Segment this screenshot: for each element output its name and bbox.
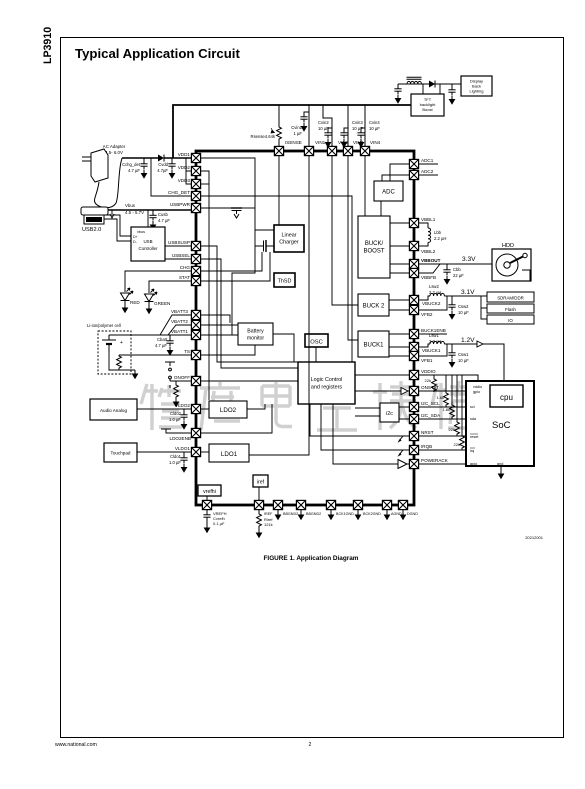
svg-text:1 µF: 1 µF bbox=[294, 131, 303, 136]
svg-text:Audio Analog: Audio Analog bbox=[100, 408, 128, 413]
pin USBPWR bbox=[191, 203, 200, 212]
capacitor Cvdd bbox=[157, 158, 175, 179]
wire VDD1 internal down bbox=[201, 158, 274, 230]
wire charge path down bbox=[201, 230, 255, 335]
svg-text:Cldo2: Cldo2 bbox=[170, 411, 182, 416]
svg-text:4.7 µF: 4.7 µF bbox=[158, 218, 170, 223]
svg-text:ADC: ADC bbox=[382, 190, 395, 196]
wire VDDIO bbox=[419, 375, 478, 381]
pin VDD3 bbox=[191, 179, 200, 188]
svg-text:reset: reset bbox=[470, 435, 479, 439]
wire vrefhi stub bbox=[206, 496, 208, 500]
pin VFB2 bbox=[409, 305, 418, 314]
svg-text:HDD: HDD bbox=[502, 243, 514, 249]
wire ADC to buck/boost bbox=[380, 201, 382, 216]
svg-text:4.7 µF: 4.7 µF bbox=[128, 168, 140, 173]
block cpu bbox=[490, 385, 523, 407]
resistor pullup SCL 1.6k bbox=[436, 375, 448, 407]
resistor pullup SDA 1.8k bbox=[442, 375, 454, 419]
wire battery monitor to logic bbox=[273, 334, 294, 362]
svg-text:22k: 22k bbox=[449, 427, 455, 432]
wire STAT internal bbox=[201, 252, 270, 281]
svg-text:VLDO1: VLDO1 bbox=[175, 446, 191, 451]
svg-text:vddio: vddio bbox=[473, 385, 482, 389]
svg-text:Rsense4.64k: Rsense4.64k bbox=[251, 134, 276, 139]
ground BCK1GND bbox=[328, 510, 335, 521]
svg-text:Lsw2: Lsw2 bbox=[429, 284, 439, 289]
pin VDD2 bbox=[191, 166, 200, 175]
wire VBBOUT internal bbox=[390, 263, 409, 265]
wire VBATT2 internal bbox=[201, 324, 238, 326]
svg-text:monitor: monitor bbox=[247, 336, 265, 342]
wire I2C_SDA bbox=[419, 418, 466, 420]
transistor Q1 power switch bbox=[231, 208, 242, 218]
capacitor Csw2 bbox=[448, 296, 469, 320]
svg-text:Cbb: Cbb bbox=[453, 267, 461, 272]
wire USBSUSP bbox=[165, 245, 191, 247]
wire ADC2 stub bbox=[419, 174, 438, 176]
wire VBBL2 internal bbox=[390, 245, 409, 247]
pin VBATT1 bbox=[191, 330, 200, 339]
svg-text:ISENSE: ISENSE bbox=[285, 140, 302, 145]
capacitor Cbatt bbox=[155, 335, 174, 356]
svg-text:BBGND2: BBGND2 bbox=[283, 512, 298, 516]
svg-text:3.3V: 3.3V bbox=[462, 256, 476, 263]
svg-text:BCK2GND: BCK2GND bbox=[363, 512, 381, 516]
svg-text:VBBFB: VBBFB bbox=[421, 275, 436, 280]
svg-text:Charger: Charger bbox=[279, 240, 299, 246]
pin VBBL2 bbox=[409, 241, 418, 250]
svg-text:IO: IO bbox=[508, 318, 513, 323]
wire CHG to RED led bbox=[125, 271, 191, 292]
svg-text:2.2 µH: 2.2 µH bbox=[434, 236, 446, 241]
svg-text:10 µF: 10 µF bbox=[352, 126, 363, 131]
svg-text:ADC2: ADC2 bbox=[421, 169, 434, 174]
capacitor Cldo2 bbox=[169, 409, 188, 430]
svg-text:VBBOUT: VBBOUT bbox=[421, 258, 441, 263]
svg-text:121k: 121k bbox=[264, 522, 273, 527]
capacitor Cusb bbox=[149, 210, 170, 230]
block Flash bbox=[487, 304, 534, 313]
wires boost switch node bbox=[423, 84, 440, 94]
diode D1 bbox=[158, 155, 164, 162]
pin VIN1 bbox=[304, 146, 313, 155]
wire VDD2 VDD3 tie bbox=[186, 158, 191, 184]
wire to memory boxes bbox=[481, 296, 487, 319]
wire LDO2ENB internal bbox=[201, 404, 272, 433]
svg-text:4.7µF: 4.7µF bbox=[157, 168, 168, 173]
pin VDD1 bbox=[191, 153, 200, 162]
wire IRQB internal bbox=[321, 404, 409, 450]
svg-text:1.2V: 1.2V bbox=[461, 337, 475, 344]
svg-text:gnd: gnd bbox=[497, 462, 503, 466]
svg-text:Cvdd: Cvdd bbox=[158, 162, 168, 167]
wire VLDO1 bbox=[137, 451, 191, 453]
block Display Back Lighting bbox=[461, 76, 492, 96]
svg-text:3.1V: 3.1V bbox=[461, 289, 475, 296]
pin AGND bbox=[382, 500, 391, 509]
svg-text:LDO1: LDO1 bbox=[221, 451, 238, 458]
svg-text:AC Adapter: AC Adapter bbox=[103, 144, 126, 149]
wire diode to VDD1 bbox=[164, 157, 191, 159]
wire POWERACK internal bbox=[333, 404, 409, 464]
driver arrow NRST bbox=[398, 436, 410, 443]
block BUCK1 bbox=[358, 331, 389, 357]
capacitor Cvrefh bbox=[203, 510, 226, 534]
pin BCK1GND bbox=[326, 500, 335, 509]
svg-text:Cvin4: Cvin4 bbox=[369, 120, 380, 125]
block SDRAM/DDR bbox=[487, 292, 534, 302]
svg-text:VBBL1: VBBL1 bbox=[421, 217, 436, 222]
svg-text:LP3910: LP3910 bbox=[42, 27, 54, 64]
pin CHG bbox=[191, 266, 200, 275]
capacitor Cchg_det bbox=[122, 158, 148, 179]
inductor Lsw2 bbox=[419, 284, 487, 300]
wire VDD2 VDD3 internal join bbox=[201, 171, 209, 400]
pin VLDO1 bbox=[191, 447, 200, 456]
wire VBUCK2 internal bbox=[389, 299, 409, 301]
wire VFB2 bbox=[419, 296, 447, 310]
vbus arrow bbox=[110, 210, 114, 218]
svg-text:Cvin3: Cvin3 bbox=[352, 120, 363, 125]
svg-text:ONSTAT: ONSTAT bbox=[421, 385, 439, 390]
wire LDO2 to logic bbox=[247, 404, 265, 409]
wire CHG_DET branch bbox=[151, 158, 191, 196]
svg-text:gpio: gpio bbox=[470, 462, 477, 466]
capacitor Cbb bbox=[443, 264, 464, 285]
resistor pullup IRQB 22k bbox=[454, 375, 465, 450]
svg-text:USB2.0: USB2.0 bbox=[82, 227, 101, 233]
svg-text:gpio: gpio bbox=[473, 390, 480, 394]
svg-text:Lsw1: Lsw1 bbox=[429, 333, 439, 338]
wire VIN1 riser bbox=[308, 105, 310, 146]
block BUCK/BOOST bbox=[358, 216, 390, 278]
arrow 1.2V bbox=[477, 341, 483, 347]
pin VFB1 bbox=[409, 351, 418, 360]
wire NRST bbox=[419, 435, 466, 437]
svg-text:BOOST: BOOST bbox=[363, 249, 384, 255]
svg-text:Cvin1: Cvin1 bbox=[291, 125, 302, 130]
wire VFB2 internal bbox=[389, 309, 409, 311]
pin VBUCK1 bbox=[409, 342, 418, 351]
wire VIN2 riser bbox=[323, 105, 332, 146]
svg-text:BUCK1: BUCK1 bbox=[363, 343, 384, 349]
svg-text:D+: D+ bbox=[133, 235, 138, 239]
svg-text:Battery: Battery bbox=[247, 329, 264, 335]
pin ADC2 bbox=[409, 170, 418, 179]
wire CHG_DET internal bbox=[201, 196, 352, 362]
wire VIN3 riser bbox=[347, 105, 349, 146]
svg-text:VDDIO: VDDIO bbox=[421, 369, 436, 374]
block IO bbox=[487, 315, 534, 324]
wire OSC to logic bbox=[315, 347, 317, 362]
svg-text:1.0 µF: 1.0 µF bbox=[169, 460, 181, 465]
svg-text:USBSEL: USBSEL bbox=[172, 253, 191, 258]
pin ONOFF bbox=[191, 376, 200, 385]
block vrefhi bbox=[198, 485, 221, 496]
svg-text:USBPWR: USBPWR bbox=[170, 202, 191, 207]
svg-text:Boost: Boost bbox=[422, 107, 433, 112]
wire VBATT bus diagonals bbox=[109, 315, 191, 335]
wire VLDO2 internal bbox=[201, 408, 209, 410]
pin DGND bbox=[398, 500, 407, 509]
wire STAT to GREEN led bbox=[149, 281, 191, 293]
svg-text:VIN4: VIN4 bbox=[370, 140, 381, 145]
svg-text:20212001: 20212001 bbox=[525, 535, 544, 540]
ground BBGND1 bbox=[275, 510, 282, 521]
pin BCK2GND bbox=[353, 500, 362, 509]
wire top rail to TFT boost bbox=[173, 105, 411, 158]
svg-text:VDD1: VDD1 bbox=[178, 152, 191, 157]
pin VIN2 bbox=[327, 146, 336, 155]
svg-text:2.2 µH: 2.2 µH bbox=[429, 339, 441, 344]
block ADC bbox=[374, 181, 403, 201]
IC LP3910 outline bbox=[196, 151, 414, 505]
svg-text:1.8k: 1.8k bbox=[442, 407, 450, 412]
pin ISENSE bbox=[274, 146, 283, 155]
capacitor Cvin2 bbox=[318, 120, 332, 148]
USB controller box bbox=[131, 227, 165, 261]
wire battery minus to gnd bbox=[109, 352, 135, 370]
svg-text:Cchg_det: Cchg_det bbox=[122, 162, 141, 167]
ground BBGND2 bbox=[298, 510, 305, 521]
svg-text:10 µF: 10 µF bbox=[458, 358, 469, 363]
svg-text:POWERACK: POWERACK bbox=[421, 458, 449, 463]
pin BBGND1 bbox=[273, 500, 282, 509]
svg-text:scl: scl bbox=[470, 405, 475, 409]
svg-text:VBUCK1: VBUCK1 bbox=[422, 348, 441, 353]
inductor Lsw1 bbox=[419, 333, 504, 385]
svg-text:ONOFF: ONOFF bbox=[174, 375, 190, 380]
page border frame bbox=[61, 38, 564, 738]
svg-text:Typical Application Circuit: Typical Application Circuit bbox=[75, 46, 240, 61]
wire ONOFF internal bbox=[201, 380, 298, 382]
resistor Riref bbox=[256, 510, 274, 539]
wire BUCK1ENB internal bbox=[389, 333, 409, 335]
wire VBATT1 internal bbox=[201, 334, 238, 336]
svg-text:CHG_DET: CHG_DET bbox=[168, 190, 190, 195]
ground BCK2GND bbox=[355, 510, 362, 521]
wire IRQB bbox=[419, 449, 466, 451]
svg-text:+: + bbox=[120, 340, 123, 346]
svg-text:VFB1: VFB1 bbox=[421, 358, 433, 363]
pin CHG_DET bbox=[191, 191, 200, 200]
inductor Lbb bbox=[419, 223, 447, 246]
svg-text:IREF: IREF bbox=[264, 512, 273, 516]
capacitor boost output bbox=[448, 84, 455, 105]
svg-text:Linear: Linear bbox=[282, 233, 297, 239]
LED RED bbox=[121, 288, 134, 304]
battery cell symbol bbox=[102, 335, 116, 352]
TFT boost circuit wire bbox=[398, 84, 461, 87]
wire VFB1 internal bbox=[389, 355, 409, 357]
wire switch to node bbox=[242, 207, 255, 209]
block Battery monitor bbox=[238, 323, 273, 345]
wire VIN4 internal to BUCK/BOOST bbox=[364, 156, 366, 216]
svg-text:Lighting: Lighting bbox=[469, 89, 483, 94]
capacitor Csw1 bbox=[448, 344, 469, 368]
svg-text:22k: 22k bbox=[454, 442, 460, 447]
SoC ground bbox=[498, 466, 505, 479]
wire VLDO2 bbox=[137, 408, 191, 410]
block BUCK 2 bbox=[358, 294, 389, 316]
block LDO1 bbox=[209, 444, 249, 462]
pin ADC1 bbox=[409, 159, 418, 168]
wire logic to i2c bbox=[355, 408, 380, 416]
wire i2c to pins bbox=[399, 407, 409, 419]
pin POWERACK bbox=[409, 459, 418, 468]
block TFT backlight Boost bbox=[411, 94, 444, 116]
wire ONOFF bbox=[170, 380, 191, 382]
pin I2C_SCL bbox=[409, 402, 418, 411]
svg-text:2.2 µH: 2.2 µH bbox=[429, 290, 441, 295]
inductor boost bbox=[407, 81, 421, 84]
block iref bbox=[253, 475, 268, 487]
svg-text:RED: RED bbox=[130, 300, 140, 305]
pin VLDO2 bbox=[191, 404, 200, 413]
svg-text:Cvin2: Cvin2 bbox=[318, 120, 329, 125]
svg-text:VDD3: VDD3 bbox=[178, 178, 191, 183]
pin ONSTAT bbox=[409, 386, 418, 395]
svg-text:BUCK/: BUCK/ bbox=[365, 241, 384, 247]
resistor pullup NRST 22k bbox=[449, 375, 460, 436]
pin IREF bbox=[254, 500, 263, 509]
svg-text:VBBL2: VBBL2 bbox=[421, 249, 436, 254]
driver triangle ONSTAT bbox=[401, 388, 408, 395]
svg-text:sda: sda bbox=[470, 417, 477, 421]
wire ADC2 internal bbox=[382, 175, 409, 181]
block SoC bbox=[466, 381, 534, 466]
svg-text:DGND: DGND bbox=[407, 512, 418, 516]
pin STAT bbox=[191, 276, 200, 285]
wire USBPWR internal to switch bbox=[201, 207, 231, 209]
svg-text:cpu: cpu bbox=[500, 393, 513, 402]
svg-text:BCK1GND: BCK1GND bbox=[336, 512, 354, 516]
capacitor Cldo1 bbox=[169, 452, 188, 473]
svg-text:10 µF: 10 µF bbox=[369, 126, 380, 131]
wire TS to thermistor bbox=[119, 354, 191, 356]
svg-text:IRQB: IRQB bbox=[421, 444, 432, 449]
svg-text:Flash: Flash bbox=[505, 307, 516, 312]
resistor Rsense bbox=[251, 105, 282, 146]
svg-text:SDRAM/DDR: SDRAM/DDR bbox=[497, 296, 524, 301]
wire VIN3 internal to BUCK1 bbox=[348, 156, 358, 340]
block Linear Charger bbox=[274, 225, 304, 252]
svg-text:Li-ion/polymer cell: Li-ion/polymer cell bbox=[87, 323, 121, 328]
resistor pullup ONSTAT 22k bbox=[425, 375, 437, 392]
wire VBBFB internal bbox=[390, 272, 409, 274]
block LDO2 bbox=[209, 401, 247, 418]
wire VBUCK1 internal bbox=[389, 346, 409, 348]
svg-text:irq: irq bbox=[470, 449, 474, 453]
wire USBSUSP internal bbox=[201, 246, 298, 362]
svg-text:10 µF: 10 µF bbox=[458, 310, 469, 315]
wire USBSEL internal bbox=[201, 259, 298, 368]
svg-text:iref: iref bbox=[257, 480, 265, 486]
svg-text:22 µF: 22 µF bbox=[453, 273, 464, 278]
ground AGND bbox=[384, 510, 391, 521]
block ThSD bbox=[274, 273, 295, 287]
driver arrow IRQB bbox=[398, 450, 410, 457]
pin IRQB bbox=[409, 445, 418, 454]
pin LDO2ENB bbox=[191, 428, 200, 437]
svg-text:LDO2ENB: LDO2ENB bbox=[170, 436, 191, 441]
svg-text:OSC: OSC bbox=[310, 340, 323, 346]
svg-text:2: 2 bbox=[309, 742, 312, 748]
pin BBGND2 bbox=[296, 500, 305, 509]
wire VBATT3 internal bbox=[201, 315, 230, 323]
wire VBBL1 internal bbox=[390, 222, 409, 224]
svg-text:TS: TS bbox=[184, 349, 190, 354]
svg-text:Logic Control: Logic Control bbox=[311, 377, 343, 383]
pin VBATT3 bbox=[191, 310, 200, 319]
svg-text:VDD2: VDD2 bbox=[178, 165, 191, 170]
svg-text:VBATT3: VBATT3 bbox=[171, 309, 188, 314]
svg-text:vrefhi: vrefhi bbox=[203, 489, 216, 495]
diode boost bbox=[429, 81, 435, 88]
driver triangle POWERACK bbox=[398, 460, 407, 469]
svg-text:www.national.com: www.national.com bbox=[55, 742, 97, 748]
svg-text:Cbatt: Cbatt bbox=[157, 337, 168, 342]
wire ISENSE internal bbox=[278, 156, 280, 225]
wire POWERACK bbox=[419, 463, 466, 465]
block Logic Control and registers bbox=[298, 362, 355, 404]
wire VFB1 bbox=[419, 344, 447, 356]
wire LDO2ENB stub bbox=[161, 429, 191, 433]
svg-text:4.7 µF: 4.7 µF bbox=[155, 343, 167, 348]
pin VBBOUT bbox=[409, 259, 418, 268]
svg-text:VFB2: VFB2 bbox=[421, 312, 433, 317]
svg-text:Csw2: Csw2 bbox=[458, 304, 469, 309]
wire vbus to controller bbox=[147, 210, 149, 227]
svg-text:i2c: i2c bbox=[386, 411, 393, 417]
MARK_WATERMARK bbox=[141, 381, 527, 430]
block i2c bbox=[380, 403, 399, 422]
svg-text:USBSUSP: USBSUSP bbox=[168, 240, 190, 245]
wire adapter to diode bbox=[122, 157, 158, 159]
wire usb data lines bbox=[104, 215, 131, 241]
svg-text:STAT: STAT bbox=[179, 275, 190, 280]
svg-text:vbus: vbus bbox=[137, 230, 145, 234]
wire VLDO1 internal bbox=[201, 451, 209, 453]
wire iref stub bbox=[258, 487, 260, 500]
pin TS bbox=[191, 350, 200, 359]
svg-text:1.6k: 1.6k bbox=[436, 395, 444, 400]
pin VBBL1 bbox=[409, 218, 418, 227]
pin VIN4 bbox=[360, 146, 369, 155]
pin VREFH bbox=[202, 500, 211, 509]
svg-text:NRST: NRST bbox=[421, 430, 434, 435]
battery dashed box bbox=[98, 331, 131, 374]
pin VIN3 bbox=[343, 146, 352, 155]
capacitor Cvin3 bbox=[340, 120, 363, 148]
wire VIN4 riser bbox=[364, 105, 366, 146]
wire VDDIO internal bbox=[355, 374, 409, 376]
svg-text:Vbus: Vbus bbox=[125, 203, 136, 208]
wire ONSTAT internal bbox=[355, 390, 409, 392]
wire BUCK1ENB stub bbox=[419, 333, 447, 335]
block Audio Analog bbox=[90, 399, 137, 420]
svg-text:GREEN: GREEN bbox=[154, 301, 170, 306]
pin NRST bbox=[409, 431, 418, 440]
wire TS internal bbox=[201, 345, 255, 355]
svg-text:FIGURE 1. Application Diagram: FIGURE 1. Application Diagram bbox=[264, 555, 359, 562]
wire VIN1 internal down bbox=[249, 156, 309, 455]
capacitor Cvin1 bbox=[291, 112, 309, 136]
HDD drawing bbox=[492, 243, 531, 281]
USB connector bbox=[81, 207, 108, 224]
wire Vbus bbox=[108, 209, 191, 211]
